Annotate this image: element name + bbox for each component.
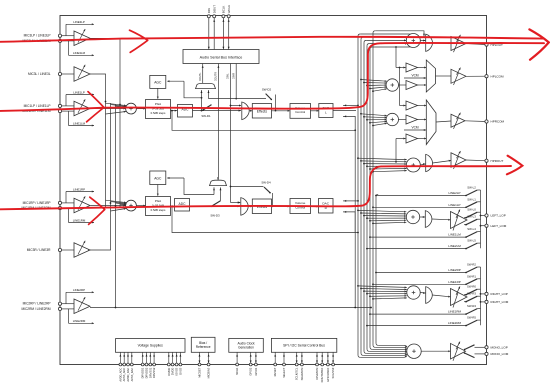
DAC L: [311, 104, 334, 118]
svg-text:LINE1RM: LINE1RM: [73, 218, 86, 222]
wire SW-D3 to DOUT mux: [220, 187, 222, 200]
svg-text:DINR: DINR: [232, 73, 235, 79]
svg-text:SW-R5: SW-R5: [467, 316, 476, 320]
svg-text:AGC: AGC: [154, 81, 162, 85]
pin GPIO1/SDO: [326, 352, 330, 382]
pin DIN: [207, 8, 211, 49]
svg-text:SW-D2: SW-D2: [262, 88, 272, 92]
svg-text:MIC3L / LINE3L: MIC3L / LINE3L: [28, 72, 51, 76]
svg-text:BCLK: BCLK: [222, 6, 226, 14]
svg-text:IOVSS: IOVSS: [175, 367, 179, 375]
switch SW-D4: [231, 181, 274, 208]
switch SW-L1: [372, 197, 480, 208]
outer chip boundary: [60, 16, 487, 365]
label LINE3LP: [73, 20, 85, 24]
pin LEFT_LOM: [485, 224, 507, 228]
svg-text:0.5dB steps: 0.5dB steps: [151, 208, 166, 212]
svg-text:Generation: Generation: [238, 346, 254, 350]
switch SW-L0: [464, 208, 481, 219]
svg-text:LINE2LM: LINE2LM: [448, 244, 461, 248]
pin RESET: [273, 352, 277, 376]
pin AVDD_DAC: [126, 352, 130, 381]
AGC right: [150, 171, 214, 196]
pin label MIC3LP / LINE3LP: [24, 34, 51, 38]
mux LEFT_LO: [420, 211, 432, 228]
svg-text:SPI / I2C Serial Control Bus: SPI / I2C Serial Control Bus: [283, 344, 325, 348]
pin MICBIAS: [207, 352, 211, 378]
switch SW-R4: [369, 304, 480, 315]
wire DINL: [227, 64, 241, 204]
svg-text:Effects: Effects: [257, 109, 268, 113]
svg-text:LINE2LP: LINE2LP: [448, 191, 460, 195]
output amp RIGHT_LO: [432, 286, 467, 307]
label LINE2RM: [73, 319, 86, 323]
switch SW-L2: [375, 186, 480, 197]
mux HPROUT: [420, 154, 432, 171]
svg-text:LINE1LP: LINE1LP: [73, 90, 85, 94]
svg-text:DVDD: DVDD: [171, 368, 175, 375]
bus taps to HPRCOM summer: [360, 113, 387, 127]
svg-text:SW-D1: SW-D1: [201, 114, 211, 118]
summing mixer right ADC: [91, 200, 137, 211]
svg-text:LINE2RP: LINE2RP: [448, 268, 461, 272]
svg-text:AVSS_ADC: AVSS_ADC: [122, 368, 126, 382]
label LINE1LP: [73, 90, 85, 94]
pin label MIC2RP / LINE2RP: [23, 302, 51, 306]
svg-text:Control: Control: [295, 110, 305, 114]
svg-text:SW-L3: SW-L3: [467, 215, 476, 219]
wire HPLCOM tap down: [399, 67, 406, 107]
wire HPROUT tap up to HPRCOM: [395, 138, 406, 163]
pin label MIC3LM / LINE3LM: [23, 39, 51, 43]
switch SW-L4: [369, 227, 480, 238]
svg-text:LEFT_LOP: LEFT_LOP: [491, 214, 506, 218]
svg-text:SCLK/SCL: SCLK/SCL: [295, 367, 299, 380]
block voltage supplies: [116, 339, 186, 353]
pin label MIC1RP / LINE1RP: [23, 201, 51, 205]
pin WCLK: [227, 5, 231, 50]
input amp MIC3R / LINE3R: [58, 241, 90, 258]
svg-text:MIC1RP / LINE1RP: MIC1RP / LINE1RP: [23, 201, 51, 205]
pin label MIC2RM / LINE2RM: [21, 307, 50, 311]
pin MONO_LOM: [485, 352, 509, 356]
svg-text:AGC: AGC: [154, 176, 162, 180]
summing amp RIGHT_LO: [407, 286, 420, 299]
ADC right: [170, 199, 240, 212]
bus taps to RIGHT_LO summer: [357, 285, 407, 300]
pin label MIC3L / LINE3L: [28, 72, 51, 76]
mux RIGHT_LO: [420, 287, 432, 304]
label LINE1RP: [73, 187, 85, 191]
switch MONO M: [464, 352, 487, 357]
pin MICDET: [198, 352, 202, 377]
svg-text:0.5dB steps: 0.5dB steps: [151, 111, 166, 115]
svg-text:DAC: DAC: [322, 201, 329, 205]
pin SCLK/SCL: [295, 352, 299, 380]
pin IOVSS: [175, 352, 179, 375]
svg-text:DRVSS2: DRVSS2: [152, 367, 156, 378]
svg-text:SCL/SSZ: SCL/SSZ: [331, 367, 335, 378]
summing amp HPLCOM: [386, 79, 398, 91]
svg-text:WCLK: WCLK: [227, 5, 231, 13]
red annotation line A (MIC3LM strike to HPLOUT): [0, 30, 543, 52]
mux before effects right: [238, 198, 248, 216]
bus taps to HPROUT summer: [357, 157, 407, 172]
pin HPRCOM: [485, 120, 505, 124]
svg-text:IOVDD: IOVDD: [167, 368, 171, 376]
switch SW-D2: [209, 88, 277, 112]
pin MONO_LOP: [485, 346, 508, 350]
svg-text:DRVSS1: DRVSS1: [148, 367, 152, 378]
svg-text:MICDET: MICDET: [198, 367, 202, 377]
wire DAC R output: [333, 200, 359, 233]
svg-text:ADC: ADC: [179, 202, 187, 206]
wire MIC3L bundle: [90, 38, 121, 206]
svg-text:LEFT_LOM: LEFT_LOM: [491, 224, 507, 228]
svg-text:LINE1LM: LINE1LM: [448, 233, 461, 237]
block bias reference: [191, 337, 215, 352]
wire line-out rail: [480, 267, 487, 325]
input amp MIC1LP / LINE1LP: [58, 94, 94, 127]
summing amp LEFT_LO: [406, 210, 419, 223]
switch SW-R1: [372, 274, 480, 285]
svg-text:RIGHT_LOP: RIGHT_LOP: [491, 292, 508, 296]
svg-text:SW-L5: SW-L5: [467, 239, 476, 243]
bus taps to HPLCOM summer: [360, 79, 387, 93]
svg-text:MICBIAS: MICBIAS: [207, 367, 211, 378]
svg-text:LINE1RP: LINE1RP: [73, 187, 85, 191]
svg-text:DOUT: DOUT: [212, 5, 216, 13]
pin label MIC1LM / LINE1LM: [23, 109, 51, 113]
svg-text:RIGHT_LOM: RIGHT_LOM: [491, 300, 509, 304]
pin DOUT/MISO: [320, 352, 324, 382]
buffer triangles HPLCOM: [398, 63, 417, 90]
svg-text:SW-R2: SW-R2: [467, 263, 476, 267]
svg-text:LINE1RP: LINE1RP: [448, 280, 461, 284]
svg-text:LINE2RP: LINE2RP: [73, 288, 85, 292]
svg-text:MIC2RM / LINE2RM: MIC2RM / LINE2RM: [21, 307, 50, 311]
label LINE3LM: [73, 51, 86, 55]
wire LINE2R out: [90, 105, 372, 309]
svg-text:SW-R4: SW-R4: [467, 304, 476, 308]
pin GPIO2: [249, 352, 253, 375]
svg-text:LINE1LM: LINE1LM: [73, 121, 86, 125]
svg-text:SW-R1: SW-R1: [467, 274, 476, 278]
svg-text:Audio Serial Bus Interface: Audio Serial Bus Interface: [200, 56, 243, 60]
svg-text:SW-L4: SW-L4: [467, 227, 476, 231]
svg-text:SW-D3: SW-D3: [210, 214, 220, 218]
svg-text:SW-L2: SW-L2: [467, 186, 476, 190]
svg-text:AVDD_ADC: AVDD_ADC: [118, 368, 122, 382]
pin HPLCOM: [485, 74, 504, 78]
svg-text:LINE1RM: LINE1RM: [448, 310, 462, 314]
summing amp MONO: [407, 344, 421, 358]
pin MCLK: [235, 352, 239, 375]
svg-text:PGA: PGA: [155, 199, 161, 203]
output amp LEFT_LO: [432, 209, 467, 230]
red annotation big arrowhead right: [529, 29, 548, 59]
PGA right: [136, 197, 170, 216]
svg-text:AVDD_DAC: AVDD_DAC: [126, 368, 130, 382]
pin SDA/MOSI: [300, 352, 304, 380]
ADC left: [171, 105, 242, 118]
svg-text:MONO_LOP: MONO_LOP: [491, 346, 508, 350]
wire HPLOUT tap to HPLCOM: [370, 47, 406, 68]
pin DRVSS2: [152, 352, 156, 378]
svg-text:GPIO1/SDO: GPIO1/SDO: [326, 368, 330, 382]
pin LEFT_LOP: [485, 214, 506, 218]
svg-text:HPROUT: HPROUT: [491, 159, 504, 163]
audio serial bus interface U1: [183, 50, 259, 64]
output amp HPRCOM: [436, 113, 487, 129]
block serial control bus: [271, 338, 336, 352]
wire DOUTL: [199, 64, 204, 84]
svg-text:DVSS: DVSS: [178, 367, 182, 374]
VCM input HPRCOM: [404, 126, 426, 131]
input amp MIC3LP / LINE3LP: [58, 23, 94, 56]
svg-text:MIC1LP / LINE1LP: MIC1LP / LINE1LP: [24, 104, 51, 108]
bus taps to LEFT_LO summer: [357, 210, 406, 225]
buffer triangles HPRCOM: [398, 101, 417, 143]
input amp MIC3L / LINE3L: [58, 65, 90, 82]
volume control left: [272, 104, 311, 119]
bus elbows into MONO summer: [360, 345, 407, 358]
block audio clock generation: [229, 338, 263, 352]
pin AVSS_ADC: [122, 352, 126, 381]
switch SW-D3: [210, 201, 220, 218]
label LINE1LM: [73, 121, 86, 125]
svg-text:SW-R0: SW-R0: [467, 285, 476, 289]
svg-text:LINE3LP: LINE3LP: [73, 20, 85, 24]
svg-text:HPLCOM: HPLCOM: [491, 74, 504, 78]
svg-text:AVSS_DAC: AVSS_DAC: [130, 368, 134, 382]
volume control right: [272, 199, 311, 214]
mux HPLOUT: [420, 34, 432, 51]
summing amp HPLOUT: [406, 34, 420, 48]
summing amp HPROUT: [406, 158, 420, 172]
summing mixer left ADC: [91, 103, 137, 114]
label LINE1RM: [73, 218, 86, 222]
pin DIN/MOSI: [315, 352, 319, 379]
bus elbows into HPLOUT summer: [360, 31, 425, 48]
mux DOUT right dome: [210, 177, 227, 195]
svg-text:Reference: Reference: [196, 345, 211, 349]
pin AVSS_DAC: [130, 352, 134, 381]
svg-text:SELECT: SELECT: [282, 367, 286, 378]
analog routing bus verticals: [354, 31, 378, 358]
pin HPLOUT: [485, 43, 503, 47]
pin IOVDD: [167, 352, 171, 376]
wire DOUTR: [215, 64, 220, 180]
svg-text:DOUT/MISO: DOUT/MISO: [320, 368, 324, 383]
pin label MIC3R / LINE3R: [27, 248, 51, 252]
switch SW-R0: [464, 285, 481, 296]
svg-text:DRVDD1: DRVDD1: [141, 367, 145, 378]
svg-text:DINL: DINL: [227, 73, 230, 79]
svg-text:DRVDD2: DRVDD2: [145, 367, 149, 378]
pin SCL/SSZ: [331, 352, 335, 378]
svg-text:RESET: RESET: [273, 367, 277, 376]
output amp HPLCOM: [436, 68, 487, 85]
switch SW-R5: [366, 316, 480, 327]
wire line-out rail: [480, 190, 487, 248]
svg-text:DIN: DIN: [207, 8, 211, 13]
pin RIGHT_LOP: [485, 292, 508, 296]
pin HPROUT: [485, 159, 504, 163]
AGC left: [150, 75, 202, 98]
red annotation line C (MIC1RM strike to HPROUT): [0, 156, 522, 225]
wire MIC3R out: [88, 103, 111, 250]
svg-text:PGA: PGA: [155, 102, 161, 106]
svg-text:DOUTL: DOUTL: [199, 72, 202, 81]
pin SELECT: [282, 352, 286, 377]
pin DRVDD2: [145, 352, 149, 378]
svg-text:SDA/MOSI: SDA/MOSI: [300, 367, 304, 380]
pin label MIC1LP / LINE1LP: [24, 104, 51, 108]
svg-text:LINE2RM: LINE2RM: [448, 321, 462, 325]
pin DRVSS1: [148, 352, 152, 378]
PGA left: [136, 100, 170, 119]
svg-text:SW-L1: SW-L1: [467, 197, 476, 201]
effects right: [248, 199, 271, 214]
wire PGA right to bus: [171, 205, 359, 233]
pin AVDD_ADC: [118, 352, 122, 381]
VCM input HPLCOM: [404, 74, 426, 79]
wire DINR: [232, 64, 237, 100]
svg-text:GPIO2: GPIO2: [249, 367, 253, 375]
wire MIC3L out: [90, 74, 106, 207]
svg-text:HPRCOM: HPRCOM: [491, 120, 505, 124]
output amp MONO: [421, 342, 465, 361]
svg-text:MIC3R / LINE3R: MIC3R / LINE3R: [27, 248, 51, 252]
pin RIGHT_LOM: [485, 300, 509, 304]
wire PGA left to bus: [171, 110, 355, 131]
svg-text:MIC3LP / LINE3LP: MIC3LP / LINE3LP: [24, 34, 51, 38]
switch SW-R3: [464, 292, 481, 303]
switch SW-L5: [366, 239, 480, 250]
svg-text:MCLK: MCLK: [235, 367, 239, 374]
effects left: [249, 104, 271, 119]
pin DVSS: [178, 352, 182, 374]
svg-text:MONO_LOM: MONO_LOM: [491, 352, 509, 356]
svg-text:Voltage Supplies: Voltage Supplies: [138, 344, 164, 348]
svg-text:SW-D4: SW-D4: [261, 181, 271, 185]
mux DOUT left dome: [196, 83, 216, 98]
mux HPRCOM: [418, 100, 437, 145]
pin DRVDD1: [141, 352, 145, 378]
mux before effects left: [239, 102, 249, 120]
output amp HPROUT: [433, 151, 487, 169]
switch MONO P: [464, 345, 487, 351]
svg-text:SW-L0: SW-L0: [467, 208, 476, 212]
svg-text:LINE1LP: LINE1LP: [448, 203, 460, 207]
svg-text:VCM: VCM: [411, 74, 418, 78]
label LINE2RP: [73, 288, 85, 292]
svg-text:LINE2RM: LINE2RM: [73, 319, 86, 323]
pin BCLK: [222, 6, 226, 50]
pin DVDD: [171, 352, 175, 375]
svg-text:DOUTR: DOUTR: [215, 72, 218, 81]
pin GPIO1: [254, 352, 258, 375]
svg-text:GPIO1: GPIO1: [254, 367, 258, 375]
summing amp HPRCOM: [386, 113, 398, 125]
pin DOUT: [212, 5, 216, 50]
input amp MIC2RP / LINE2RP: [58, 291, 94, 324]
svg-text:DIN/MOSI: DIN/MOSI: [315, 367, 319, 379]
switch SW-D1: [201, 97, 212, 118]
switch SW-L3: [464, 215, 481, 226]
svg-text:LINE3LM: LINE3LM: [73, 51, 86, 55]
output amp HPLOUT: [433, 35, 487, 52]
switch SW-R2: [375, 263, 480, 274]
mux HPLCOM: [418, 60, 436, 92]
input amp MIC1RP / LINE1RP: [58, 191, 94, 224]
svg-text:VCM: VCM: [411, 126, 418, 130]
pin label MIC1RM / LINE1RM: [21, 206, 50, 210]
DAC R: [311, 199, 334, 214]
svg-text:L: L: [325, 111, 327, 115]
red annotation line B (MIC1LM strike joining A): [0, 43, 544, 122]
wire DAC L output: [333, 104, 359, 131]
svg-text:SW-R3: SW-R3: [467, 292, 476, 296]
svg-text:MIC2RP / LINE2RP: MIC2RP / LINE2RP: [23, 302, 51, 306]
